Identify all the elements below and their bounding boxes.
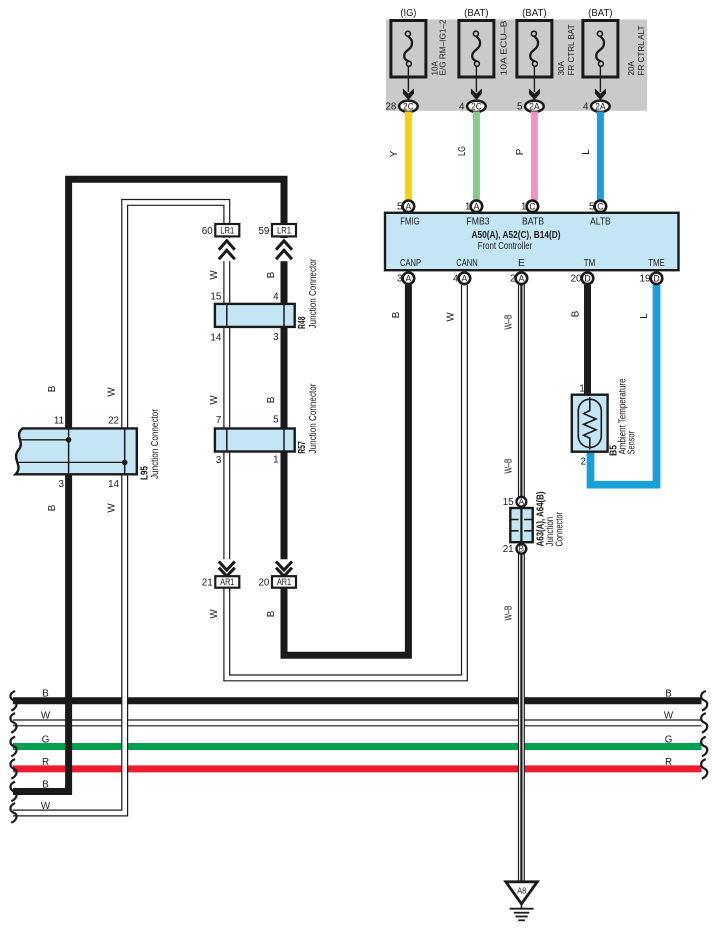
svg-text:(BAT): (BAT) [464, 8, 489, 19]
svg-text:FR CTRL ALT: FR CTRL ALT [636, 25, 646, 76]
pin 5 (C) ALTB [595, 201, 607, 213]
bus wire W (horizontal) [13, 719, 702, 726]
torn edge marks right [701, 691, 707, 779]
svg-text:Connector: Connector [555, 511, 566, 546]
svg-text:W: W [446, 312, 457, 322]
svg-text:L95: L95 [140, 466, 151, 480]
svg-text:W–B: W–B [504, 605, 515, 620]
svg-text:ALTB: ALTB [590, 217, 611, 228]
svg-text:3: 3 [59, 479, 65, 490]
svg-text:11: 11 [54, 416, 64, 427]
junction dot W in L95 [122, 460, 128, 466]
svg-text:2C: 2C [471, 101, 482, 111]
svg-text:D: D [584, 273, 590, 283]
svg-text:B: B [42, 689, 49, 700]
svg-text:G: G [42, 734, 50, 745]
svg-text:W: W [41, 711, 51, 722]
junction connector R57 [215, 429, 295, 452]
svg-text:A50(A), A52(C), B14(D): A50(A), A52(C), B14(D) [472, 230, 561, 241]
svg-text:AR1: AR1 [277, 577, 291, 587]
pin 5 (A) FMIG [403, 201, 415, 213]
svg-text:Front Controller: Front Controller [478, 241, 533, 252]
svg-text:60: 60 [202, 226, 213, 237]
pin 4 (A) CANN [459, 273, 471, 285]
wire W from R57 to AR1-21 and across to CANN [227, 285, 465, 678]
svg-text:(IG): (IG) [400, 8, 416, 19]
svg-text:W: W [664, 711, 674, 722]
svg-text:5: 5 [273, 415, 279, 426]
A63 grid lines [512, 520, 532, 531]
svg-text:LG: LG [457, 146, 468, 156]
svg-text:L: L [581, 149, 592, 155]
svg-text:Sensor: Sensor [626, 430, 637, 454]
svg-text:CANN: CANN [456, 258, 478, 269]
wire LG (fuse 2 to FMB3) [473, 112, 480, 201]
wire B from TM to sensor B5 pin 1 [584, 285, 591, 395]
svg-text:Junction Connector: Junction Connector [150, 408, 161, 479]
svg-text:1: 1 [521, 202, 526, 213]
svg-text:W–B: W–B [504, 458, 515, 473]
junction connector A63(A), A64(B) [510, 508, 532, 542]
svg-text:21: 21 [202, 578, 213, 589]
svg-text:W–B: W–B [504, 314, 515, 329]
svg-text:4: 4 [583, 102, 589, 113]
svg-text:E: E [518, 258, 525, 269]
fuse panel background [386, 20, 647, 111]
svg-text:TM: TM [584, 258, 596, 269]
wire B between R48 and R57 [281, 327, 288, 430]
svg-text:(BAT): (BAT) [588, 8, 613, 19]
svg-text:22: 22 [108, 416, 119, 427]
wire L from TME to sensor B5 pin 2 [591, 285, 657, 485]
junction connector L95 [16, 428, 137, 474]
svg-text:14: 14 [210, 333, 221, 344]
svg-text:R57: R57 [297, 441, 308, 454]
front controller A50(A), A52(C), B14(D) [385, 213, 679, 270]
wire L (fuse 4 to ALTB) [597, 112, 604, 201]
svg-text:7: 7 [216, 415, 221, 426]
connector AR1 pin 20 [258, 559, 296, 588]
wire W inside R48 [226, 303, 228, 328]
A63 pin 15 (A) [517, 497, 527, 507]
pin 1 (A) FMB3 [471, 201, 483, 213]
svg-text:A: A [473, 201, 479, 211]
svg-text:B: B [665, 689, 672, 700]
svg-text:10A ECU–B: 10A ECU–B [499, 20, 509, 75]
pin 5 (2A) [525, 101, 544, 112]
svg-text:FMIG: FMIG [400, 217, 420, 228]
pin 19 (D) TME [651, 273, 663, 285]
connector AR1 pin 21 [202, 559, 240, 588]
svg-text:R: R [665, 757, 672, 768]
resistor element inside B5 [584, 397, 596, 450]
svg-text:A: A [518, 273, 524, 283]
svg-text:2: 2 [581, 457, 586, 468]
pin 28 (2C) [399, 101, 418, 112]
svg-text:2: 2 [510, 274, 515, 285]
wire W from LR1-60 to R48 [223, 236, 230, 305]
svg-text:BATB: BATB [522, 217, 544, 228]
svg-text:FMB3: FMB3 [467, 217, 490, 228]
svg-text:28: 28 [385, 102, 396, 113]
svg-text:A8: A8 [517, 887, 526, 896]
wire W between R48 and R57 [223, 327, 230, 430]
svg-text:3: 3 [397, 274, 403, 285]
fuse 10A E/G RM-IG1-2 [391, 21, 426, 78]
svg-text:2A: 2A [595, 101, 606, 111]
fuse 2 arrow [475, 67, 477, 93]
svg-text:LR1: LR1 [277, 225, 291, 235]
bus wire B (horizontal) [13, 697, 702, 704]
junction dot B in L95 [66, 437, 72, 443]
svg-text:AR1: AR1 [220, 577, 234, 587]
wire W-B from E to A63 [518, 285, 525, 497]
L95 internal bus to node B [19, 439, 69, 441]
pin 1 (C) BATB [527, 201, 539, 213]
fuse 10A ECU-B [459, 21, 494, 78]
svg-text:Junction Connector: Junction Connector [308, 258, 319, 329]
svg-text:5: 5 [589, 202, 595, 213]
svg-text:C: C [529, 201, 536, 211]
svg-text:30A: 30A [556, 61, 566, 76]
junction connector R48 [215, 304, 295, 327]
svg-text:2C: 2C [403, 101, 414, 111]
svg-text:4: 4 [273, 292, 279, 303]
svg-text:G: G [665, 734, 673, 745]
wire B inside R57 [283, 428, 285, 453]
svg-text:R: R [42, 757, 49, 768]
svg-text:A: A [461, 273, 467, 283]
svg-text:(BAT): (BAT) [522, 8, 547, 19]
svg-text:B: B [571, 310, 582, 317]
wire B from R57 to AR1-20 and across to CANP [284, 285, 408, 655]
connector LR1 pin 59 [258, 224, 296, 261]
svg-text:4: 4 [453, 274, 459, 285]
wire P (fuse 3 to BATB) [531, 112, 538, 201]
wire inside A63 [520, 508, 522, 542]
svg-text:14: 14 [108, 479, 119, 490]
svg-text:W: W [107, 387, 118, 397]
svg-text:FR CTRL BAT: FR CTRL BAT [566, 24, 576, 76]
svg-text:A: A [405, 201, 411, 211]
fuse 3 arrow [533, 67, 535, 93]
fuse 1 arrow [407, 67, 409, 93]
connector LR1 pin 60 [202, 224, 240, 261]
svg-text:A: A [405, 273, 411, 283]
wire W inside L95 [124, 428, 126, 474]
wire Y (fuse 1 to FMIG) [405, 112, 412, 201]
svg-text:W: W [209, 609, 220, 619]
svg-text:E/G RM–IG1–2: E/G RM–IG1–2 [438, 19, 448, 75]
svg-text:21: 21 [503, 544, 514, 555]
svg-text:P: P [515, 148, 526, 155]
svg-text:W: W [209, 395, 220, 405]
A63 pin 21 (B) [517, 544, 527, 554]
svg-text:5: 5 [397, 202, 403, 213]
svg-text:B: B [47, 504, 58, 511]
svg-text:B: B [266, 396, 277, 403]
svg-text:B: B [266, 610, 277, 617]
svg-text:R48: R48 [297, 316, 308, 329]
svg-text:3: 3 [273, 332, 279, 343]
svg-text:TME: TME [648, 258, 665, 269]
svg-text:W: W [209, 270, 220, 280]
svg-text:15: 15 [503, 497, 514, 508]
torn edge marks left [10, 691, 16, 823]
svg-text:W: W [41, 801, 51, 812]
svg-text:4: 4 [459, 102, 465, 113]
svg-text:B: B [519, 545, 525, 554]
svg-text:20A: 20A [626, 61, 636, 76]
sensor B5 ambient temperature sensor [572, 395, 608, 452]
svg-text:15: 15 [210, 292, 221, 303]
bus wire G (horizontal) [13, 743, 702, 750]
pin 4 (2A) [591, 101, 610, 112]
svg-text:CANP: CANP [400, 258, 421, 269]
ground A8 [506, 882, 538, 921]
svg-text:5: 5 [517, 102, 523, 113]
svg-text:Y: Y [389, 150, 400, 157]
L95 internal bus to node W [17, 461, 125, 463]
svg-text:20: 20 [571, 274, 582, 285]
svg-text:B: B [47, 385, 58, 392]
svg-text:3: 3 [216, 455, 222, 466]
wire W main loop: bus stub, left vertical, top run, down to LR1-60 [13, 474, 125, 813]
svg-text:B: B [266, 271, 277, 278]
svg-text:Junction Connector: Junction Connector [308, 383, 319, 454]
svg-text:19: 19 [640, 274, 651, 285]
svg-text:D: D [653, 273, 659, 283]
fuse 30A FR CTRL BAT [517, 21, 552, 78]
pin 4 (2C) [467, 101, 486, 112]
svg-text:B: B [391, 311, 402, 318]
svg-text:59: 59 [258, 226, 269, 237]
svg-text:L: L [639, 313, 650, 319]
svg-text:W: W [107, 503, 118, 513]
svg-text:2A: 2A [529, 101, 540, 111]
svg-text:1: 1 [579, 384, 584, 395]
fuse 4 arrow [599, 67, 601, 93]
svg-text:1: 1 [465, 202, 470, 213]
svg-text:20: 20 [258, 578, 269, 589]
wire W-B from A63 to ground A8 [518, 554, 525, 882]
svg-text:B: B [42, 779, 49, 790]
svg-text:1: 1 [273, 455, 278, 466]
svg-text:A: A [519, 498, 525, 507]
pin 2 (A) E [516, 273, 528, 285]
wire B inside R48 [283, 303, 285, 328]
wire W inside R57 [226, 428, 228, 453]
fuse 20A FR CTRL ALT [583, 21, 618, 78]
pin 3 (A) CANP [403, 273, 415, 285]
pin 20 (D) TM [582, 273, 594, 285]
bus wire R (horizontal) [13, 765, 702, 772]
wire B inside L95 [68, 428, 70, 474]
svg-text:C: C [597, 201, 604, 211]
svg-text:LR1: LR1 [220, 225, 234, 235]
wire B main loop: bus stub, left vertical, top run, down to LR1-59 and R48 [13, 474, 69, 791]
